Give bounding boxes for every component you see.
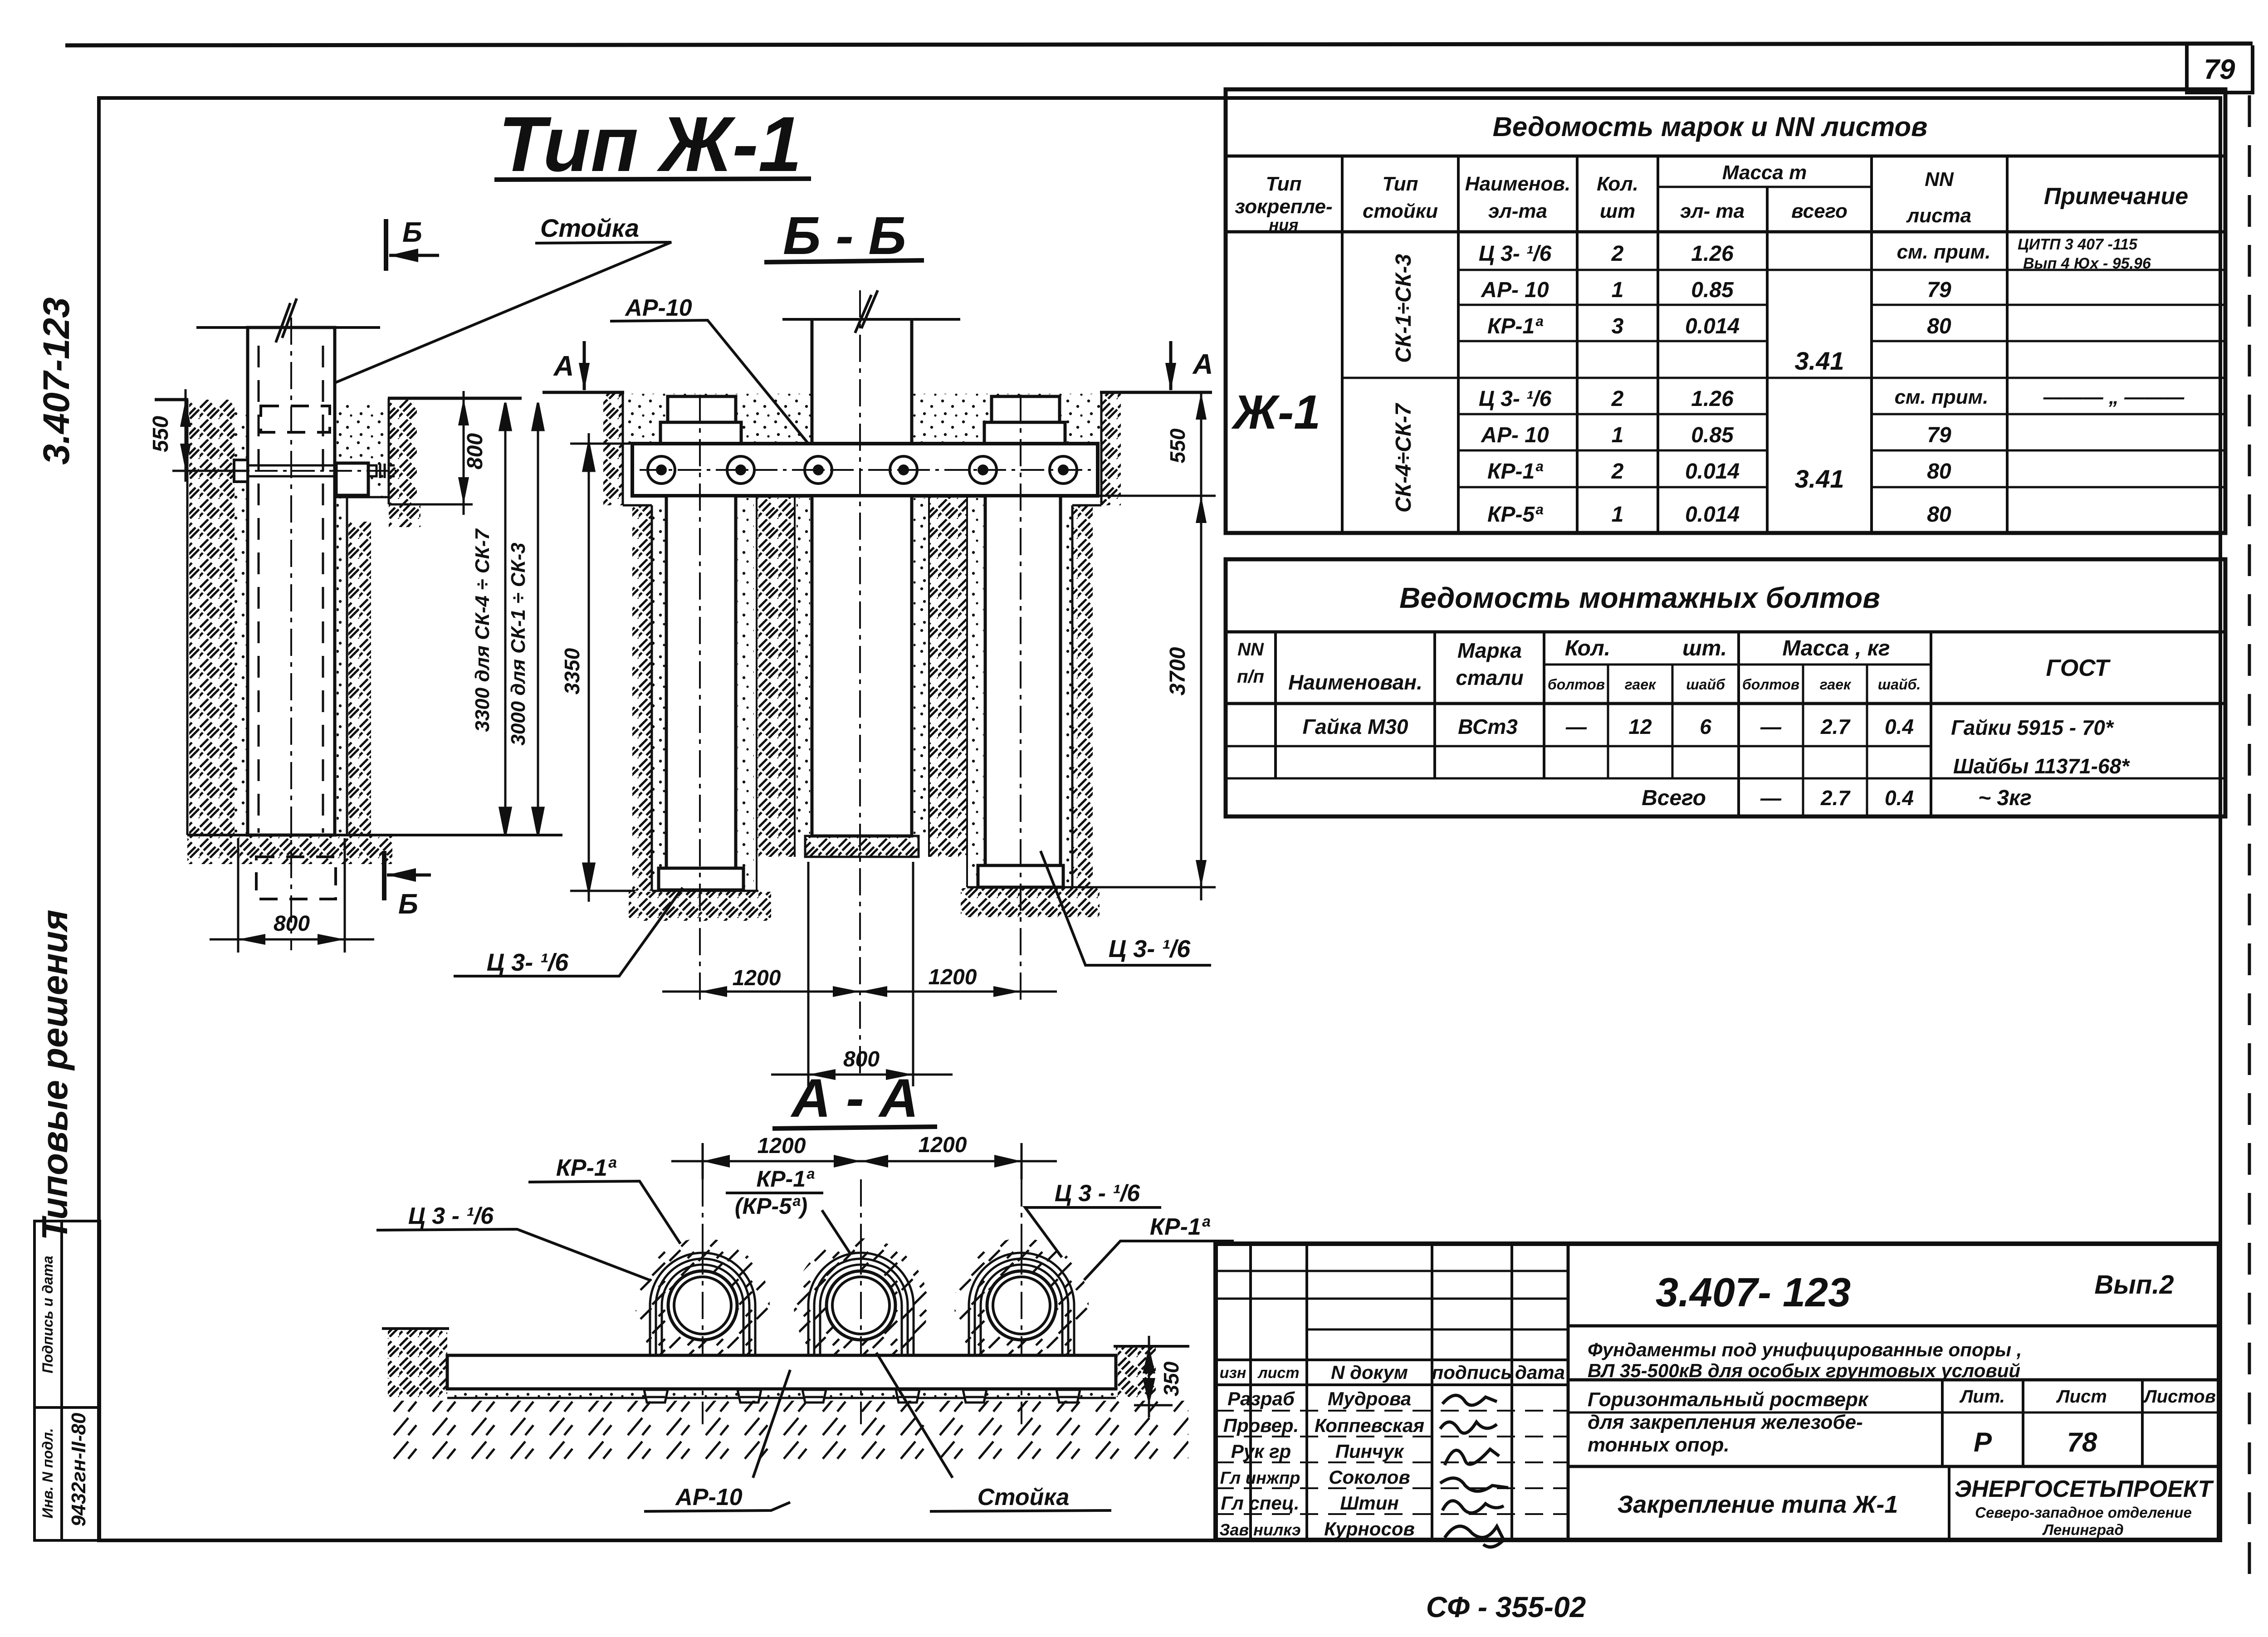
svg-text:1: 1	[1612, 503, 1624, 527]
svg-text:Р: Р	[1974, 1427, 1992, 1457]
left margin stamp boxes	[34, 1221, 100, 1540]
BB pile caps	[660, 396, 1065, 444]
svg-text:гаек: гаек	[1625, 676, 1657, 693]
svg-text:всего: всего	[1791, 200, 1848, 222]
svg-text:Вып 4 Юх - 95,96: Вып 4 Юх - 95,96	[2023, 255, 2151, 272]
svg-text:Гл спец.: Гл спец.	[1221, 1492, 1299, 1514]
svg-text:12: 12	[1628, 715, 1652, 738]
svg-text:эл- та: эл- та	[1680, 200, 1745, 222]
svg-text:СФ - 355-02: СФ - 355-02	[1426, 1591, 1586, 1623]
svg-text:350: 350	[1159, 1361, 1183, 1396]
svg-text:А: А	[1192, 349, 1213, 380]
svg-text:СК-4÷СК-7: СК-4÷СК-7	[1392, 403, 1416, 513]
svg-text:КР-1ª: КР-1ª	[556, 1155, 617, 1181]
svg-text:Всего: Всего	[1642, 786, 1706, 810]
Лит Лист Листов	[1959, 1387, 2216, 1457]
svg-text:1200: 1200	[929, 965, 977, 989]
svg-text:Подпись и дата: Подпись и дата	[39, 1256, 56, 1373]
svg-text:Примечание: Примечание	[2044, 183, 2188, 210]
svg-text:зокрепле-: зокрепле-	[1235, 195, 1332, 218]
dims 550 and 3700 right of BB	[1063, 392, 1216, 900]
sheet number box 79	[2187, 45, 2253, 93]
left view: pile body	[248, 327, 335, 835]
label АР-10 bottom with leader	[644, 1370, 790, 1511]
svg-text:2: 2	[1611, 459, 1624, 484]
BB right trench outline and hatch	[1059, 392, 1121, 887]
title block frame	[1216, 1244, 2219, 1540]
svg-text:Рук гр: Рук гр	[1231, 1441, 1291, 1462]
left view: centerline	[290, 318, 292, 950]
svg-text:Шайбы 11371-68*: Шайбы 11371-68*	[1953, 754, 2130, 778]
svg-text:Лит.: Лит.	[1959, 1387, 2005, 1407]
svg-text:3700: 3700	[1166, 647, 1190, 695]
svg-text:79: 79	[1927, 423, 1951, 447]
BB centerlines	[699, 395, 701, 1005]
svg-text:лист: лист	[1257, 1364, 1299, 1382]
svg-text:Вып.2: Вып.2	[2094, 1270, 2174, 1300]
svg-text:для закрепления железобе-: для закрепления железобе-	[1588, 1411, 1863, 1433]
BB ground lines	[543, 391, 624, 394]
svg-text:NN: NN	[1237, 640, 1264, 660]
section mark А left	[553, 341, 590, 391]
svg-text:3000 для СК-1 ÷ СК-3: 3000 для СК-1 ÷ СК-3	[507, 542, 529, 745]
svg-text:Стойка: Стойка	[540, 214, 639, 242]
svg-text:1200: 1200	[758, 1134, 806, 1158]
BB mid soil strips	[738, 496, 983, 891]
svg-text:Курносов: Курносов	[1324, 1518, 1415, 1539]
left view: trench left wall	[187, 400, 248, 835]
svg-text:см. прим.: см. прим.	[1895, 386, 1989, 408]
svg-text:Ц 3- ¹/6: Ц 3- ¹/6	[1479, 242, 1552, 266]
AA nuts below beam	[644, 1390, 1080, 1402]
signatures squiggles	[1440, 1395, 1508, 1547]
BB pole upper part	[782, 290, 960, 444]
svg-text:Ведомость марок и NN листов: Ведомость марок и NN листов	[1493, 112, 1928, 142]
svg-text:ВСт3: ВСт3	[1458, 715, 1518, 738]
svg-text:стали: стали	[1456, 666, 1523, 689]
svg-text:550: 550	[149, 416, 173, 452]
svg-text:79: 79	[1927, 278, 1951, 302]
svg-text:3.41: 3.41	[1795, 347, 1844, 375]
svg-text:Соколов: Соколов	[1329, 1466, 1410, 1488]
svg-text:АР-10: АР-10	[624, 295, 692, 321]
svg-text:NN: NN	[1925, 168, 1954, 191]
label Ц 3-1/6 right AA	[1025, 1180, 1161, 1257]
svg-text:ВЛ 35-500кВ для особых грунто: ВЛ 35-500кВ для особых грунтовых условий	[1588, 1360, 2020, 1381]
svg-text:СК-1÷СК-3: СК-1÷СК-3	[1392, 254, 1416, 363]
label Стойка with leader	[315, 214, 671, 391]
svg-text:ЦИТП 3 407 -115: ЦИТП 3 407 -115	[2018, 236, 2138, 253]
svg-text:0.014: 0.014	[1685, 503, 1740, 527]
svg-text:1200: 1200	[733, 966, 781, 990]
svg-text:Листов: Листов	[2143, 1387, 2216, 1407]
org name	[1955, 1476, 2214, 1538]
svg-text:1.26: 1.26	[1691, 242, 1734, 266]
BB bottom dim 1200 1200	[662, 965, 1057, 997]
svg-text:80: 80	[1927, 314, 1951, 338]
svg-text:шт.: шт.	[1682, 636, 1727, 660]
svg-text:Б - Б: Б - Б	[783, 206, 906, 266]
svg-text:ЭНЕРГОСЕТЬПРОЕКТ: ЭНЕРГОСЕТЬПРОЕКТ	[1955, 1476, 2214, 1502]
svg-text:Тип Ж-1: Тип Ж-1	[499, 101, 802, 188]
BB left trench outline and hatch	[603, 392, 665, 891]
dim 800 pocket	[458, 391, 487, 515]
svg-text:N докум: N докум	[1331, 1362, 1408, 1383]
AA ground hatch rows	[390, 1401, 1188, 1460]
svg-text:Коппевская: Коппевская	[1315, 1415, 1424, 1436]
svg-text:листа: листа	[1906, 205, 1971, 227]
svg-text:Гайка М30: Гайка М30	[1302, 715, 1408, 738]
svg-text:А - А: А - А	[790, 1068, 919, 1129]
svg-text:эл-та: эл-та	[1488, 200, 1547, 222]
svg-text:изн: изн	[1220, 1364, 1246, 1382]
svg-text:0.014: 0.014	[1685, 459, 1740, 484]
svg-text:80: 80	[1927, 459, 1951, 484]
heading Тип Ж-1	[494, 101, 811, 188]
svg-text:550: 550	[1166, 428, 1189, 463]
svg-text:0.014: 0.014	[1685, 314, 1740, 338]
svg-text:дата: дата	[1515, 1362, 1565, 1383]
svg-text:3300 для СК-4 ÷ СК-7: 3300 для СК-4 ÷ СК-7	[471, 528, 494, 732]
svg-text:шайб: шайб	[1686, 676, 1725, 693]
AA centerlines	[702, 1179, 704, 1424]
BB bolt axis line	[640, 469, 1091, 471]
svg-text:Типовые решения: Типовые решения	[34, 909, 75, 1240]
label КР-1а top-left	[528, 1155, 680, 1244]
svg-text:800: 800	[463, 433, 487, 469]
svg-text:Инв. N подл.: Инв. N подл.	[39, 1428, 56, 1518]
svg-text:гаек: гаек	[1820, 676, 1852, 693]
svg-text:стойки: стойки	[1363, 200, 1438, 222]
svg-text:болтов: болтов	[1548, 676, 1605, 693]
BB right pile	[978, 496, 1063, 887]
AA pipe centerline segments over pipes	[702, 1247, 704, 1365]
svg-text:3.41: 3.41	[1795, 464, 1844, 493]
left view: anchor plate	[336, 463, 368, 495]
svg-text:Б: Б	[402, 217, 422, 248]
label Ц 3-1/6 right with leader	[1041, 851, 1211, 965]
AA beam АР-10	[447, 1355, 1116, 1389]
svg-text:1: 1	[1612, 423, 1624, 447]
svg-text:Масса , кг: Масса , кг	[1782, 636, 1890, 660]
svg-text:6: 6	[1700, 715, 1711, 738]
svg-text:тонных опор.: тонных опор.	[1588, 1434, 1730, 1456]
svg-text:КР-1ª: КР-1ª	[1487, 459, 1543, 484]
svg-text:80: 80	[1927, 503, 1951, 527]
dim 800 bottom of left view	[210, 838, 374, 953]
view title Б - Б	[764, 206, 924, 266]
svg-text:болтов: болтов	[1742, 676, 1799, 693]
svg-text:79: 79	[2204, 54, 2235, 85]
svg-text:Ц 3- ¹/6: Ц 3- ¹/6	[1109, 935, 1191, 963]
svg-text:Стойка: Стойка	[978, 1484, 1070, 1510]
svg-text:Масса m: Масса m	[1722, 161, 1807, 184]
svg-text:п/п: п/п	[1237, 667, 1264, 687]
svg-text:шт: шт	[1600, 200, 1635, 222]
svg-text:Тип: Тип	[1383, 173, 1418, 195]
svg-text:КР-1ª: КР-1ª	[756, 1166, 815, 1192]
dim 800 below BB	[771, 1047, 953, 1080]
svg-text:~ 3кг: ~ 3кг	[1978, 786, 2032, 810]
svg-text:Кол.: Кол.	[1565, 636, 1610, 660]
svg-text:0.4: 0.4	[1885, 715, 1914, 738]
svg-text:Зав нилкэ: Зав нилкэ	[1219, 1520, 1301, 1539]
left view: hidden cap dashed	[261, 406, 330, 432]
dim 550 left	[149, 389, 248, 482]
svg-text:1: 1	[1612, 278, 1624, 302]
left view: hidden bottom box dashed	[256, 857, 336, 899]
label Стойка bottom with leader	[876, 1353, 1111, 1511]
svg-text:3: 3	[1612, 314, 1624, 338]
svg-text:А: А	[553, 351, 574, 382]
svg-text:Ц 3- ¹/6: Ц 3- ¹/6	[1479, 387, 1552, 411]
svg-text:АР- 10: АР- 10	[1481, 423, 1549, 447]
svg-text:3.407- 123: 3.407- 123	[1656, 1270, 1851, 1315]
svg-text:Наименов.: Наименов.	[1465, 173, 1570, 195]
svg-text:Ц 3 - ¹/6: Ц 3 - ¹/6	[1055, 1180, 1140, 1207]
svg-text:1200: 1200	[919, 1133, 967, 1157]
left view: right wall lower	[337, 497, 371, 835]
left view: bolt axis dash-dot	[218, 470, 401, 472]
label КР-1а / (КР-5а) center	[726, 1166, 851, 1255]
svg-text:КР-1ª: КР-1ª	[1150, 1214, 1211, 1240]
left view: right wall upper with pocket	[335, 398, 473, 527]
BB bolts	[648, 456, 1077, 484]
AA dim 350	[1134, 1336, 1183, 1417]
section mark А right	[1165, 341, 1213, 391]
svg-text:Ведомость монтажных болтов: Ведомость монтажных болтов	[1399, 582, 1880, 614]
AA dim 1200 1200	[671, 1133, 1057, 1179]
BB pole lower part	[805, 496, 919, 857]
svg-text:3.407-123: 3.407-123	[36, 297, 77, 464]
label Ц 3-1/6 left AA	[376, 1203, 650, 1280]
svg-text:Ж-1: Ж-1	[1231, 386, 1321, 439]
svg-text:Ц 3 - ¹/6: Ц 3 - ¹/6	[408, 1203, 494, 1229]
svg-text:1.26: 1.26	[1691, 387, 1734, 411]
table 1: Ведомость марок и NN листов	[1226, 89, 2225, 533]
view title А - А	[772, 1068, 937, 1129]
left view: through bolt	[234, 460, 395, 482]
svg-text:2.7: 2.7	[1820, 715, 1851, 738]
svg-text:Разраб: Разраб	[1227, 1388, 1295, 1409]
BB pole edge extension lines	[807, 862, 810, 1086]
label Ц 3-1/6 left with leader	[454, 888, 683, 976]
svg-text:КР-1ª: КР-1ª	[1487, 314, 1543, 338]
BB sand dots above beam	[624, 394, 1100, 443]
svg-text:Кол.: Кол.	[1597, 173, 1638, 195]
svg-text:9432гн-II-80: 9432гн-II-80	[68, 1412, 90, 1526]
table 2: Ведомость монтажных болтов	[1226, 559, 2225, 816]
svg-text:Северо-западное отделение: Северо-западное отделение	[1975, 1504, 2192, 1521]
svg-text:0.4: 0.4	[1885, 786, 1914, 810]
svg-text:АР-10: АР-10	[675, 1484, 742, 1510]
svg-text:—: —	[1760, 786, 1782, 810]
svg-text:——— „ ———: ——— „ ———	[2043, 386, 2185, 408]
svg-text:Б: Б	[398, 889, 418, 920]
BB bottom hatch strips	[629, 887, 1100, 921]
svg-text:подпись: подпись	[1432, 1362, 1512, 1383]
svg-text:2: 2	[1611, 242, 1624, 266]
AA bedding strip with dots	[447, 1389, 1116, 1398]
left view: ground lines	[155, 398, 188, 401]
svg-text:—: —	[1565, 715, 1587, 738]
svg-text:Ленинград: Ленинград	[2042, 1521, 2124, 1538]
svg-text:Ц 3- ¹/6: Ц 3- ¹/6	[487, 949, 569, 976]
svg-text:КР-5ª: КР-5ª	[1487, 503, 1543, 527]
svg-text:78: 78	[2067, 1427, 2097, 1457]
svg-text:шайб.: шайб.	[1878, 676, 1921, 693]
svg-text:Мудрова: Мудрова	[1328, 1388, 1411, 1409]
svg-text:Пинчук: Пинчук	[1335, 1441, 1404, 1462]
svg-text:Закрепление типа Ж-1: Закрепление типа Ж-1	[1618, 1491, 1898, 1518]
svg-text:ния: ния	[1269, 215, 1299, 234]
svg-text:800: 800	[274, 912, 310, 936]
long dims 3300 3000	[500, 403, 543, 835]
svg-text:0.85: 0.85	[1691, 423, 1734, 447]
BB rostverk beam АР-10	[632, 444, 1098, 496]
BB left pile	[659, 496, 743, 890]
svg-text:ГОСТ: ГОСТ	[2046, 655, 2111, 681]
AA pipes Ц3-1/6	[668, 1271, 1056, 1340]
svg-text:Марка: Марка	[1457, 639, 1522, 662]
dim 3350	[570, 433, 635, 902]
svg-text:Гайки 5915 - 70*: Гайки 5915 - 70*	[1951, 716, 2114, 739]
svg-text:Провер.: Провер.	[1223, 1415, 1299, 1436]
label АР-10 with leader	[610, 295, 816, 454]
top rule line	[65, 44, 2253, 45]
right page edge dashed line	[2248, 95, 2251, 1583]
AA side ground lines and hatch	[382, 1329, 1189, 1397]
left view: trench bottom hatch	[187, 835, 562, 864]
svg-text:Тип: Тип	[1266, 173, 1302, 195]
svg-text:Штин: Штин	[1340, 1492, 1399, 1514]
svg-text:Лист: Лист	[2056, 1387, 2107, 1407]
svg-text:Наименован.: Наименован.	[1288, 670, 1422, 694]
svg-text:2: 2	[1611, 387, 1624, 411]
svg-text:—: —	[1760, 715, 1782, 738]
section mark Б top	[386, 217, 439, 271]
AA clamps КР-1а	[650, 1253, 1074, 1357]
svg-text:3350: 3350	[560, 648, 584, 694]
left view: break line top with zigzag	[196, 298, 380, 342]
svg-text:0.85: 0.85	[1691, 278, 1734, 302]
svg-text:АР- 10: АР- 10	[1481, 278, 1549, 302]
svg-text:Гл инжпр: Гл инжпр	[1220, 1469, 1300, 1488]
label КР-1а right AA	[1084, 1214, 1234, 1280]
svg-text:(КР-5ª): (КР-5ª)	[735, 1193, 807, 1219]
section mark Б bottom	[384, 851, 431, 920]
svg-text:см. прим.: см. прим.	[1897, 241, 1991, 263]
svg-text:Фундаменты под унифицированные: Фундаменты под унифицированные опоры ,	[1588, 1339, 2022, 1360]
svg-text:Горизонтальный ростверк: Горизонтальный ростверк	[1588, 1388, 1869, 1411]
svg-text:2.7: 2.7	[1820, 786, 1851, 810]
